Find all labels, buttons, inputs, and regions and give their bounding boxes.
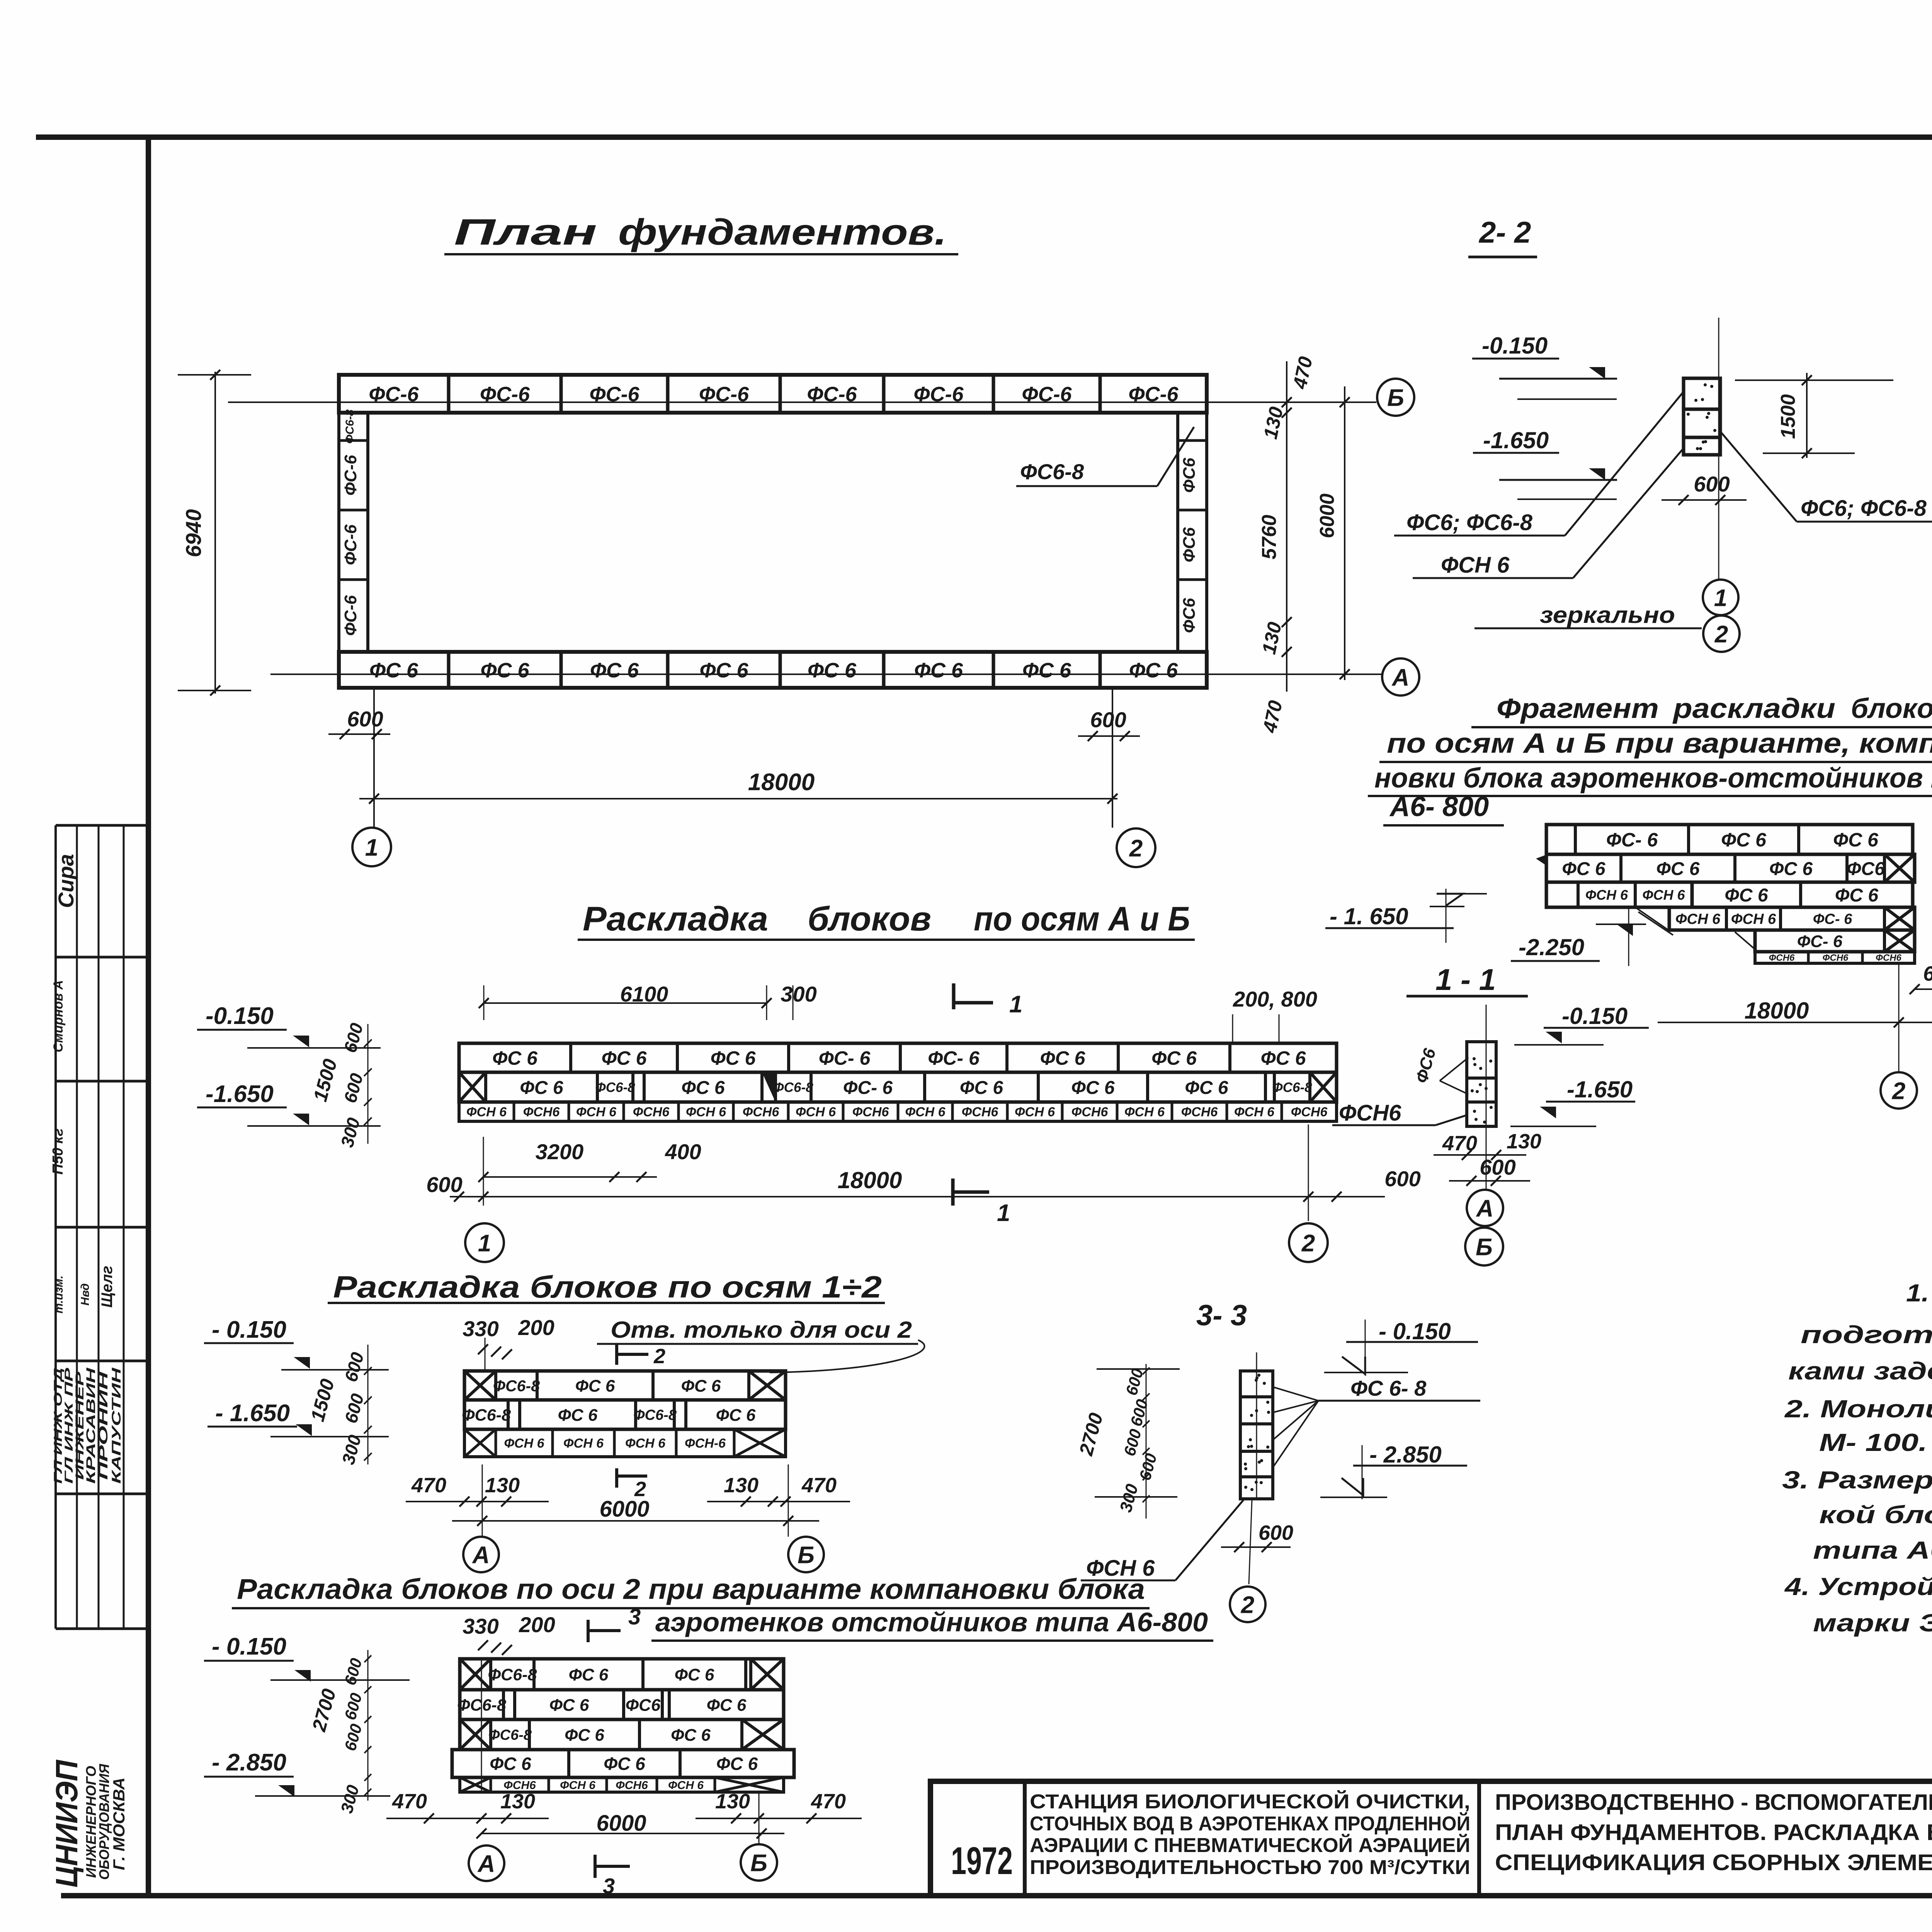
svg-text:ФС 6: ФС 6 <box>602 1048 647 1069</box>
svg-text:-1.650: -1.650 <box>1483 427 1549 453</box>
svg-text:3: 3 <box>628 1604 641 1629</box>
svg-text:- 0.150: - 0.150 <box>212 1316 286 1343</box>
svg-text:600: 600 <box>1090 707 1126 732</box>
svg-text:ФС-6: ФС-6 <box>341 595 360 636</box>
svg-text:ФСН 6: ФСН 6 <box>625 1436 666 1451</box>
svg-text:2. Монолитные участки выпо: 2. Монолитные участки выполнить из бетон… <box>1784 1395 1932 1423</box>
svg-text:18000: 18000 <box>1745 998 1809 1024</box>
svg-text:ФСН 6: ФСН 6 <box>686 1105 726 1119</box>
svg-text:ФС6-8: ФС6-8 <box>773 1080 813 1095</box>
svg-text:ФС 6: ФС 6 <box>1071 1078 1114 1098</box>
svg-text:ФСН 6: ФСН 6 <box>1086 1556 1155 1581</box>
svg-text:-1.650: -1.650 <box>1567 1077 1633 1102</box>
svg-text:ФС 6: ФС 6 <box>1721 829 1767 851</box>
svg-text:130: 130 <box>485 1474 520 1497</box>
svg-text:ФС 6: ФС 6 <box>1185 1078 1228 1098</box>
svg-text:ФСН6: ФСН6 <box>616 1779 648 1792</box>
svg-text:блоков: блоков <box>1851 693 1932 724</box>
svg-text:ФС6; ФС6-8: ФС6; ФС6-8 <box>1801 496 1927 521</box>
svg-text:2: 2 <box>1892 1078 1905 1104</box>
svg-text:Раскладка блоков по осям 1÷2: Раскладка блоков по осям 1÷2 <box>333 1270 882 1304</box>
svg-text:130: 130 <box>500 1790 535 1813</box>
svg-text:ФСН6: ФСН6 <box>633 1105 670 1119</box>
svg-text:ФС- 6: ФС- 6 <box>928 1048 980 1069</box>
svg-text:600: 600 <box>1384 1167 1420 1191</box>
svg-text:ФСН6: ФСН6 <box>1181 1105 1218 1119</box>
svg-text:18000: 18000 <box>748 769 815 796</box>
svg-text:СТАНЦИЯ БИОЛОГИЧЕСКОЙ ОЧИСТК: СТАНЦИЯ БИОЛОГИЧЕСКОЙ ОЧИСТКИ, <box>1030 1790 1470 1813</box>
svg-text:200: 200 <box>519 1612 555 1637</box>
svg-text:400: 400 <box>665 1139 701 1164</box>
svg-text:ФС 6: ФС 6 <box>1022 659 1071 682</box>
svg-text:2- 2: 2- 2 <box>1478 215 1531 249</box>
svg-text:СПЕЦИФИКАЦИЯ СБОРНЫХ ЭЛЕМЕН: СПЕЦИФИКАЦИЯ СБОРНЫХ ЭЛЕМЕНТОВ. <box>1495 1850 1932 1875</box>
svg-text:марки ЭЭ-2.: марки ЭЭ-2. <box>1813 1609 1932 1637</box>
svg-text:ФС 6: ФС 6 <box>492 1048 538 1069</box>
svg-text:130: 130 <box>724 1474 759 1497</box>
svg-text:Смирнов А: Смирнов А <box>51 980 66 1052</box>
svg-text:ФС6-8: ФС6-8 <box>462 1406 511 1424</box>
svg-text:ФС6-8: ФС6-8 <box>595 1080 635 1095</box>
svg-text:ФС6-8: ФС6-8 <box>1020 459 1084 484</box>
svg-text:Сира: Сира <box>54 854 78 908</box>
svg-text:-0.150: -0.150 <box>206 1003 274 1029</box>
svg-text:600: 600 <box>347 707 383 731</box>
svg-text:6940: 6940 <box>181 509 206 558</box>
svg-text:ФС 6: ФС 6 <box>1769 859 1813 879</box>
svg-text:600: 600 <box>1259 1521 1293 1544</box>
svg-text:ФС 6: ФС 6 <box>1835 885 1878 906</box>
svg-text:ФСН 6: ФСН 6 <box>1731 911 1776 927</box>
svg-text:ФС 6: ФС 6 <box>480 659 529 682</box>
svg-text:6000: 6000 <box>1316 493 1338 538</box>
svg-text:ПРОНИН: ПРОНИН <box>96 1371 110 1480</box>
svg-text:ФСН 6: ФСН 6 <box>1675 911 1721 927</box>
svg-text:ФС 6: ФС 6 <box>960 1078 1003 1098</box>
svg-text:2: 2 <box>1241 1592 1254 1618</box>
svg-text:ФСН6: ФСН6 <box>1291 1105 1328 1119</box>
svg-text:ФСН6: ФСН6 <box>1769 953 1795 963</box>
svg-text:ФС- 6: ФС- 6 <box>1813 911 1852 927</box>
svg-text:Фрагмент: Фрагмент <box>1497 693 1659 724</box>
svg-text:ФС 6: ФС 6 <box>520 1078 563 1098</box>
svg-text:ФС 6: ФС 6 <box>1833 829 1879 851</box>
svg-text:раскладки: раскладки <box>1672 693 1835 724</box>
svg-text:200, 800: 200, 800 <box>1233 987 1317 1011</box>
svg-text:1500: 1500 <box>1777 394 1799 439</box>
svg-text:Б: Б <box>750 1850 767 1876</box>
svg-text:А: А <box>472 1542 490 1568</box>
svg-text:ФСН 6: ФСН 6 <box>576 1105 617 1119</box>
svg-text:2: 2 <box>1129 835 1143 862</box>
svg-text:3. Размеры в скобках даны: 3. Размеры в скобках даны для участков с… <box>1782 1466 1932 1494</box>
svg-text:1: 1 <box>365 834 378 861</box>
svg-text:ФС 6: ФС 6 <box>590 659 639 682</box>
svg-text:2: 2 <box>1714 621 1728 648</box>
svg-text:ФС 6: ФС 6 <box>808 659 857 682</box>
svg-text:ФСН 6: ФСН 6 <box>905 1105 946 1119</box>
svg-text:ФС- 6: ФС- 6 <box>1606 829 1658 851</box>
svg-text:470: 470 <box>1442 1132 1477 1155</box>
svg-text:- 0.150: - 0.150 <box>1379 1318 1451 1344</box>
svg-text:Щелг: Щелг <box>99 1266 116 1308</box>
svg-text:ФСН 6: ФСН 6 <box>1441 553 1510 578</box>
svg-text:типа А6- 800.: типа А6- 800. <box>1813 1536 1932 1564</box>
svg-text:ФС 6: ФС 6 <box>681 1078 724 1098</box>
svg-text:А: А <box>1476 1195 1494 1222</box>
svg-text:ФСН 6: ФСН 6 <box>1585 887 1628 903</box>
svg-text:1: 1 <box>478 1230 491 1257</box>
svg-text:ФСН 6: ФСН 6 <box>466 1105 507 1119</box>
svg-text:ФС 6: ФС 6 <box>716 1406 756 1425</box>
svg-text:Нвд: Нвд <box>79 1283 92 1306</box>
svg-text:ЦНИИЭП: ЦНИИЭП <box>49 1760 84 1888</box>
svg-text:ФС 6: ФС 6 <box>671 1726 711 1745</box>
svg-text:ФС 6: ФС 6 <box>1261 1048 1306 1069</box>
svg-text:А: А <box>477 1850 495 1877</box>
svg-text:ФС 6: ФС 6 <box>369 659 418 682</box>
svg-text:1: 1 <box>1009 991 1022 1018</box>
svg-text:-2.250: -2.250 <box>1519 934 1584 960</box>
svg-text:ФСН6: ФСН6 <box>1339 1100 1401 1126</box>
svg-text:ПЛАН ФУНДАМЕНТОВ. РАСКЛАДКА: ПЛАН ФУНДАМЕНТОВ. РАСКЛАДКА БЛОКОВ. <box>1495 1820 1932 1845</box>
svg-text:Г. МОСКВА: Г. МОСКВА <box>110 1777 128 1870</box>
svg-text:ФС-6: ФС-6 <box>341 524 360 565</box>
svg-text:А: А <box>1391 664 1410 691</box>
svg-text:-0.150: -0.150 <box>1562 1003 1628 1029</box>
svg-text:ФС- 6: ФС- 6 <box>843 1078 893 1098</box>
svg-text:ФС 6: ФС 6 <box>675 1665 714 1684</box>
svg-text:ФСН 6: ФСН 6 <box>504 1436 544 1451</box>
svg-text:ФС 6: ФС 6 <box>558 1406 598 1425</box>
svg-text:2: 2 <box>1301 1230 1315 1257</box>
svg-text:-0.150: -0.150 <box>1482 333 1548 359</box>
svg-text:ФС6-8: ФС6-8 <box>488 1727 532 1743</box>
svg-text:330: 330 <box>463 1614 498 1638</box>
svg-text:- 2.850: - 2.850 <box>212 1749 286 1776</box>
svg-text:ФС 6: ФС 6 <box>490 1754 531 1774</box>
svg-text:600: 600 <box>1694 472 1730 496</box>
svg-text:- 2.850: - 2.850 <box>1369 1442 1442 1468</box>
svg-text:470: 470 <box>411 1474 446 1497</box>
svg-text:ПРОИЗВОДИТЕЛЬНОСТЬЮ 700 М³/СУТ: ПРОИЗВОДИТЕЛЬНОСТЬЮ 700 М³/СУТКИ <box>1030 1856 1470 1879</box>
svg-text:6000: 6000 <box>599 1497 649 1522</box>
svg-text:600: 600 <box>1480 1155 1515 1179</box>
svg-text:ФС6: ФС6 <box>626 1696 661 1714</box>
svg-text:1 - 1: 1 - 1 <box>1435 963 1496 997</box>
svg-text:ФСН 6: ФСН 6 <box>668 1779 704 1792</box>
svg-text:ФС6-8: ФС6-8 <box>493 1377 540 1395</box>
svg-text:ФС6-8: ФС6-8 <box>344 409 356 444</box>
svg-text:ФС6: ФС6 <box>1180 527 1199 562</box>
svg-text:ФСН 6: ФСН 6 <box>1642 887 1685 903</box>
svg-text:330: 330 <box>463 1316 498 1341</box>
svg-text:ФС 6: ФС 6 <box>707 1696 747 1714</box>
svg-text:ФС6: ФС6 <box>1847 859 1885 879</box>
svg-text:- 0.150: - 0.150 <box>212 1633 286 1660</box>
svg-text:4. Устройство глубинного заз: 4. Устройство глубинного заземлителя см.… <box>1784 1573 1932 1600</box>
svg-text:ками заделывать цементным р: ками заделывать цементным раствором М- 1… <box>1788 1357 1932 1385</box>
svg-text:130: 130 <box>1507 1130 1541 1153</box>
svg-text:по осям А и Б при варианте,: по осям А и Б при варианте, компа- <box>1387 728 1932 759</box>
svg-text:ФС 6- 8: ФС 6- 8 <box>1350 1376 1427 1400</box>
svg-text:-1.650: -1.650 <box>206 1081 274 1107</box>
svg-text:зеркально: зеркально <box>1540 602 1675 628</box>
svg-text:ФС 6: ФС 6 <box>914 659 963 682</box>
svg-text:- 1. 650: - 1. 650 <box>1330 903 1408 929</box>
svg-text:ФС6-8: ФС6-8 <box>488 1665 537 1684</box>
svg-text:подготовку толщиной 100 мм.: подготовку толщиной 100 мм. Швы между бл… <box>1801 1321 1932 1349</box>
svg-text:470: 470 <box>811 1790 846 1813</box>
svg-text:Раскладка блоков по оси 2 при: Раскладка блоков по оси 2 при варианте к… <box>237 1573 1145 1605</box>
svg-text:т.изм.: т.изм. <box>53 1276 65 1313</box>
svg-text:СТОЧНЫХ ВОД В АЭРОТЕНКАХ ПРО: СТОЧНЫХ ВОД В АЭРОТЕНКАХ ПРОДЛЕННОЙ <box>1030 1812 1470 1835</box>
svg-text:ФСН6: ФСН6 <box>1876 953 1901 963</box>
svg-text:1. Блоки фундаментов укладыв: 1. Блоки фундаментов укладывают на песча… <box>1906 1279 1932 1307</box>
svg-text:План: План <box>454 212 597 253</box>
svg-text:КАПУСТИН: КАПУСТИН <box>109 1367 123 1484</box>
svg-text:200: 200 <box>518 1315 554 1340</box>
svg-text:ФС6-8: ФС6-8 <box>1272 1080 1312 1095</box>
svg-text:новки блока аэротенков-отстойн: новки блока аэротенков-отстойников типа <box>1374 763 1932 794</box>
svg-text:ФС 6: ФС 6 <box>711 1048 756 1069</box>
svg-text:ФСН 6: ФСН 6 <box>563 1436 604 1451</box>
svg-text:600: 600 <box>1923 962 1932 985</box>
svg-text:ФС 6: ФС 6 <box>1040 1048 1086 1069</box>
svg-text:6100: 6100 <box>620 982 668 1006</box>
svg-text:ФС6; ФС6-8: ФС6; ФС6-8 <box>1406 510 1533 535</box>
svg-text:ФС6: ФС6 <box>1180 598 1199 633</box>
svg-text:470: 470 <box>392 1790 427 1813</box>
svg-text:ФС 6: ФС 6 <box>1656 859 1699 879</box>
svg-text:600: 600 <box>426 1172 462 1197</box>
svg-text:Б: Б <box>798 1542 815 1568</box>
svg-text:ФСН 6: ФСН 6 <box>1234 1105 1275 1119</box>
svg-text:ФС 6: ФС 6 <box>1129 659 1178 682</box>
svg-text:5760: 5760 <box>1258 515 1281 560</box>
svg-text:АЭРАЦИИ С ПНЕВМАТИЧЕСКОЙ АЭРА: АЭРАЦИИ С ПНЕВМАТИЧЕСКОЙ АЭРАЦИЕЙ <box>1030 1834 1470 1857</box>
svg-text:ФС 6: ФС 6 <box>716 1754 758 1774</box>
svg-text:кой блока аэротенков и о: кой блока аэротенков и отстойников <box>1819 1501 1932 1529</box>
svg-text:ФСН 6: ФСН 6 <box>1124 1105 1165 1119</box>
svg-text:ФС 6: ФС 6 <box>681 1376 721 1395</box>
svg-text:ФС 6: ФС 6 <box>549 1696 589 1714</box>
svg-text:ФСН 6: ФСН 6 <box>1015 1105 1055 1119</box>
svg-text:ФСН6: ФСН6 <box>1071 1105 1109 1119</box>
svg-text:ФС 6: ФС 6 <box>604 1754 645 1774</box>
svg-text:1: 1 <box>997 1200 1010 1226</box>
svg-text:ФСН6: ФСН6 <box>852 1105 889 1119</box>
svg-text:ФС 6: ФС 6 <box>1562 859 1605 879</box>
svg-text:М- 100.: М- 100. <box>1819 1429 1927 1456</box>
svg-text:3- 3: 3- 3 <box>1196 1299 1247 1332</box>
svg-text:ФС-6: ФС-6 <box>341 455 360 496</box>
svg-text:3200: 3200 <box>536 1139 584 1164</box>
svg-text:ФСН6: ФСН6 <box>1823 953 1849 963</box>
svg-text:ФС 6: ФС 6 <box>569 1665 609 1684</box>
svg-text:470: 470 <box>801 1474 837 1497</box>
svg-text:18000: 18000 <box>838 1167 902 1193</box>
svg-text:фундаментов.: фундаментов. <box>618 212 947 253</box>
svg-text:ФСН 6: ФСН 6 <box>560 1779 595 1792</box>
svg-text:ФС 6: ФС 6 <box>575 1376 615 1395</box>
svg-text:130: 130 <box>715 1790 750 1813</box>
svg-text:ФС6-8: ФС6-8 <box>457 1696 506 1714</box>
svg-text:ФС- 6: ФС- 6 <box>819 1048 871 1069</box>
svg-text:300: 300 <box>781 982 816 1006</box>
svg-text:П50 кг: П50 кг <box>50 1128 66 1175</box>
svg-text:ФС 6: ФС 6 <box>565 1726 604 1745</box>
svg-text:ФС- 6: ФС- 6 <box>1797 932 1843 951</box>
svg-text:ФСН6: ФСН6 <box>523 1105 560 1119</box>
svg-text:ФСН6: ФСН6 <box>962 1105 999 1119</box>
svg-text:- 1.650: - 1.650 <box>215 1400 290 1427</box>
svg-text:3: 3 <box>603 1874 615 1898</box>
svg-text:1: 1 <box>1714 585 1727 611</box>
svg-text:ФСН 6: ФСН 6 <box>796 1105 836 1119</box>
svg-text:1972: 1972 <box>951 1839 1013 1883</box>
svg-text:Раскладка: Раскладка <box>583 900 768 938</box>
svg-text:ФСН-6: ФСН-6 <box>685 1436 726 1451</box>
svg-text:ФС6-8: ФС6-8 <box>633 1407 677 1423</box>
svg-text:А6- 800: А6- 800 <box>1389 791 1489 822</box>
svg-text:ФС 6: ФС 6 <box>699 659 748 682</box>
svg-text:ФСН6: ФСН6 <box>743 1105 780 1119</box>
svg-text:ФС6: ФС6 <box>1180 457 1199 493</box>
svg-text:Б: Б <box>1387 384 1404 411</box>
svg-text:по осям А и Б: по осям А и Б <box>974 900 1190 938</box>
svg-text:6000: 6000 <box>596 1811 646 1836</box>
svg-text:КРАСАВИН: КРАСАВИН <box>84 1367 98 1484</box>
svg-text:ФС 6: ФС 6 <box>1725 885 1768 906</box>
svg-text:блоков: блоков <box>808 900 931 938</box>
svg-text:Отв. только для оси 2: Отв. только для оси 2 <box>611 1317 912 1343</box>
svg-text:аэротенков отстойников типа А6: аэротенков отстойников типа А6-800 <box>655 1607 1208 1637</box>
svg-text:ПРОИЗВОДСТВЕННО - ВСПОМОГАТЕЛЬ: ПРОИЗВОДСТВЕННО - ВСПОМОГАТЕЛЬНОЕ ЗДАНИЕ <box>1495 1790 1932 1815</box>
svg-text:2: 2 <box>653 1345 665 1368</box>
svg-text:ФС 6: ФС 6 <box>1151 1048 1197 1069</box>
svg-text:Б: Б <box>1476 1234 1493 1260</box>
